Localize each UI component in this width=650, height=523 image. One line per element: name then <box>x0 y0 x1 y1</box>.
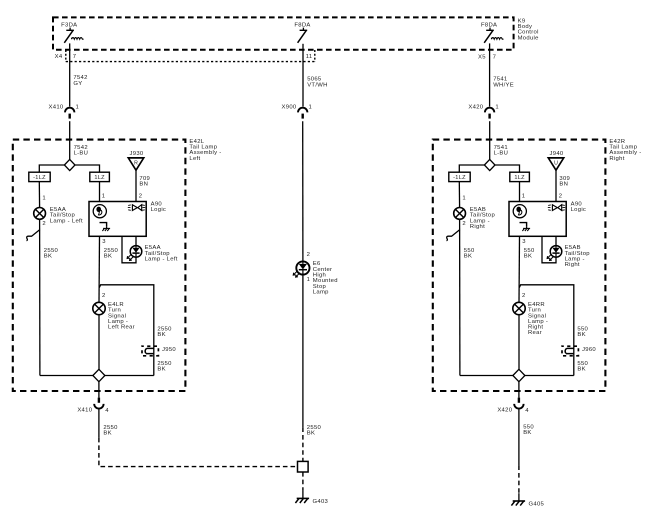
connector X420 pin 1 <box>468 104 499 118</box>
pin 2 lamp (L) <box>42 221 46 227</box>
wire LED loop upper (R) <box>555 236 557 245</box>
wire branch left (R) <box>459 165 484 172</box>
svg-text:BK: BK <box>577 366 585 372</box>
wire triangle to A90 (L) <box>135 170 137 201</box>
wire label 2550 BK below X410 <box>103 425 118 437</box>
svg-text:BK: BK <box>307 430 315 436</box>
svg-text:X900: X900 <box>282 104 297 110</box>
svg-text:1LZ: 1LZ <box>94 175 105 181</box>
svg-text:BK: BK <box>577 332 585 338</box>
wire turn lamp down (R) <box>518 315 520 376</box>
label E42R assembly <box>609 139 641 162</box>
svg-text:VT/WH: VT/WH <box>307 82 327 88</box>
bulb E4RR turn signal lamp (R) <box>513 302 525 314</box>
wire turn lamp down (L) <box>98 315 100 376</box>
label E5AA (L) <box>50 207 83 224</box>
pin 2 A90 (R) <box>559 194 563 200</box>
label K9 Body Control Module <box>518 18 540 41</box>
svg-text:Left Rear: Left Rear <box>108 325 135 331</box>
wire 1LZ to A90 (R) <box>519 182 521 202</box>
junction diamond bottom (R) <box>513 369 525 381</box>
assembly box E42R Tail Lamp Assembly <box>433 140 606 391</box>
svg-text:Module: Module <box>518 35 540 41</box>
bulb E5AB tail/stop lamp (R) <box>454 208 466 220</box>
wire 1LZ to A90 (L) <box>99 182 101 202</box>
LED indicator glyphs inside A90 (R) <box>548 205 565 211</box>
wire bottom junction (R) <box>460 375 574 377</box>
module A90 Logic box (R) <box>509 202 566 237</box>
svg-text:3: 3 <box>522 239 526 245</box>
svg-text:J930: J930 <box>130 151 144 157</box>
label E42L assembly <box>189 139 221 162</box>
wire dashed to G403 <box>302 472 304 491</box>
svg-text:1LZ: 1LZ <box>514 175 525 181</box>
wire F8DA right to X420 <box>489 43 491 106</box>
svg-text:1: 1 <box>522 194 526 200</box>
svg-text:7: 7 <box>73 54 77 60</box>
LED E5AB tail/stop (R) <box>547 246 562 261</box>
wire exit (L) <box>98 382 100 398</box>
label E6 <box>313 261 338 295</box>
svg-text:X420: X420 <box>497 408 512 414</box>
wire to lamp (R) <box>458 182 460 208</box>
svg-text:F8DA: F8DA <box>481 23 497 29</box>
bulb E4LR turn signal lamp (L) <box>93 302 105 314</box>
wire label 550 BK pin3 (R) <box>524 248 535 260</box>
assembly box E42L Tail Lamp Assembly <box>13 140 186 391</box>
connector X410 pin 1 <box>49 104 80 118</box>
wire label 5065 VT/WH <box>307 77 327 89</box>
svg-text:BK: BK <box>157 332 165 338</box>
svg-text:1: 1 <box>495 105 499 111</box>
driver output F8DA center <box>294 23 310 43</box>
label A90 Logic (R) <box>571 201 587 213</box>
svg-text:11: 11 <box>306 54 313 60</box>
svg-text:BK: BK <box>157 366 165 372</box>
svg-text:1: 1 <box>102 194 106 200</box>
wire bottom junction (L) <box>40 375 154 377</box>
svg-text:BK: BK <box>104 254 112 260</box>
svg-text:2: 2 <box>559 194 563 200</box>
wire branch right (R) <box>495 165 520 172</box>
svg-text:X5: X5 <box>478 55 486 61</box>
svg-text:1: 1 <box>307 277 311 283</box>
pin 3 A90 (L) <box>102 239 106 245</box>
svg-text:Left: Left <box>189 156 200 162</box>
svg-text:X420: X420 <box>468 104 483 110</box>
wire pin3 down (L) <box>98 236 101 302</box>
pin 2 E6 <box>307 252 311 258</box>
svg-text:Lamp - Left: Lamp - Left <box>50 218 83 224</box>
internal ground trace (R) <box>520 223 527 227</box>
wire label 7542 L-BU <box>74 145 89 157</box>
LED indicator glyphs inside A90 (L) <box>128 205 145 211</box>
wire E6 down solid <box>302 275 304 428</box>
splice J940 triangle (R) <box>548 151 564 170</box>
pin 7 X5 <box>493 55 497 61</box>
svg-text:Logic: Logic <box>151 207 167 213</box>
wire pin3 down (R) <box>518 236 521 302</box>
svg-text:G403: G403 <box>313 499 329 505</box>
svg-text:Right: Right <box>470 224 485 230</box>
svg-text:2: 2 <box>522 293 526 299</box>
svg-text:BK: BK <box>523 430 531 436</box>
bulb icon inside A90 (R) <box>513 205 526 218</box>
LED E6 center high mounted stop lamp <box>293 261 309 277</box>
wire lamp to junction (R) <box>459 219 461 375</box>
svg-text:X4: X4 <box>55 54 63 60</box>
internal ground trace (L) <box>100 223 107 227</box>
wire label 550 BK below X420 <box>523 424 534 436</box>
pin 3 A90 (R) <box>522 239 526 245</box>
svg-text:1: 1 <box>309 105 313 111</box>
svg-text:3: 3 <box>102 239 106 245</box>
label E5AB LED right <box>565 245 591 268</box>
svg-text:GY: GY <box>73 81 82 87</box>
wire X420 down solid <box>518 408 520 465</box>
label E5AB (R) <box>470 207 496 230</box>
module A90 Logic box (L) <box>89 202 146 237</box>
svg-text:Right: Right <box>609 156 624 162</box>
wire label below splice (R) <box>577 361 588 373</box>
splice J950 (L) <box>142 346 176 356</box>
wire lamp to junction (L) <box>39 219 41 375</box>
wire branch to splice (L) <box>99 285 154 376</box>
wire exit (R) <box>518 382 520 398</box>
wire label 2550 BK lamp branch (L) <box>44 248 59 260</box>
svg-text:U: U <box>554 161 558 167</box>
wire F3DA to X410 <box>69 43 71 106</box>
wire label 2550 BK pin3 (L) <box>104 248 119 260</box>
svg-text:BK: BK <box>103 430 111 436</box>
driver output F3DA <box>61 23 83 43</box>
junction diamond top (L) <box>64 159 75 170</box>
wire triangle to A90 (R) <box>555 170 557 201</box>
label A90 Logic (L) <box>151 201 167 213</box>
bulb E5AA tail/stop lamp (L) <box>34 208 46 220</box>
wire label 2550 BK center <box>307 425 322 437</box>
pin 2 turn lamp (L) <box>102 293 106 299</box>
splice J960 (R) <box>562 346 596 356</box>
wire LED loop upper (L) <box>135 236 137 245</box>
svg-text:BK: BK <box>44 254 52 260</box>
connector X420 pin 4 <box>497 398 529 414</box>
svg-text:BK: BK <box>464 254 472 260</box>
pin 2 A90 (L) <box>139 194 143 200</box>
svg-text:1: 1 <box>462 195 466 201</box>
svg-text:2: 2 <box>139 194 143 200</box>
bulb icon inside A90 (L) <box>93 205 106 218</box>
svg-text:L-BU: L-BU <box>494 151 509 157</box>
K9 Body Control Module box <box>53 17 514 49</box>
wire branch left (L) <box>39 165 64 172</box>
wire feed (R) <box>489 121 491 159</box>
LED E5AA tail/stop (L) <box>127 246 142 261</box>
wire label 7541 WH/YE <box>493 77 514 89</box>
svg-text:X410: X410 <box>77 408 92 414</box>
wire F8DA center to X900 <box>302 44 304 107</box>
wire label 7541 L-BU <box>494 145 509 157</box>
label X4 <box>55 54 63 60</box>
ground G403 <box>295 491 328 505</box>
label E4RR (R) <box>528 302 548 336</box>
wire label above splice (L) <box>157 327 172 339</box>
svg-text:4: 4 <box>105 408 109 414</box>
pigtail hook (R) <box>446 230 459 241</box>
pin 1 lamp (R) <box>462 195 466 201</box>
pin 1 E6 <box>307 277 311 283</box>
wire E6 dashed to junction block <box>302 427 304 461</box>
svg-text:R: R <box>134 161 138 167</box>
wire label below splice (L) <box>157 361 172 373</box>
label X5 <box>478 55 486 61</box>
internal chassis ground (R) <box>522 226 530 231</box>
pigtail hook (L) <box>26 230 39 241</box>
svg-text:BK: BK <box>524 254 532 260</box>
terminal box 1LZ (R) <box>510 172 530 181</box>
wire label 709 BN (L) <box>139 176 150 188</box>
wire label 309 BN (R) <box>559 176 570 188</box>
connector X900 pin 1 <box>282 104 313 118</box>
wire branch to splice (R) <box>519 285 574 376</box>
svg-text:7: 7 <box>493 55 497 61</box>
svg-text:-1LZ: -1LZ <box>453 175 466 181</box>
svg-text:BN: BN <box>139 182 148 188</box>
wire dashed ground run left <box>99 438 298 467</box>
svg-text:Lamp - Left: Lamp - Left <box>145 257 178 263</box>
svg-text:4: 4 <box>525 408 529 414</box>
svg-text:2: 2 <box>307 252 311 258</box>
pin 1 A90 (L) <box>102 194 106 200</box>
svg-text:2: 2 <box>42 221 46 227</box>
junction block S-point <box>298 461 309 472</box>
wire X900 to E6 <box>302 121 304 261</box>
svg-text:WH/YE: WH/YE <box>493 82 514 88</box>
svg-text:2: 2 <box>462 221 466 227</box>
junction diamond bottom (L) <box>93 369 105 381</box>
svg-text:BN: BN <box>559 182 568 188</box>
splice J930 triangle (L) <box>128 151 144 170</box>
svg-text:F8DA: F8DA <box>294 23 310 29</box>
svg-text:J960: J960 <box>582 347 596 353</box>
terminal box 1LZ (L) <box>90 172 110 181</box>
label E5AA LED left <box>145 245 178 262</box>
label E4LR (L) <box>108 302 135 331</box>
svg-text:1: 1 <box>42 195 46 201</box>
wire branch right (L) <box>75 165 100 172</box>
svg-text:1: 1 <box>76 105 80 111</box>
junction diamond top (R) <box>484 159 495 170</box>
terminal box -1LZ (R) <box>449 172 470 181</box>
svg-text:Logic: Logic <box>571 207 587 213</box>
svg-text:L-BU: L-BU <box>74 151 89 157</box>
wire label 550 BK lamp branch (R) <box>464 248 475 260</box>
wire LED loop (L) <box>122 236 136 262</box>
wire label 7542 GY <box>73 75 87 87</box>
wire LED loop (R) <box>542 236 556 262</box>
internal chassis ground (L) <box>102 226 110 231</box>
wire to lamp (L) <box>38 182 40 208</box>
wire X410 down solid <box>98 408 100 437</box>
svg-text:Right: Right <box>565 262 580 268</box>
wire label above splice (R) <box>577 327 588 339</box>
svg-text:Rear: Rear <box>528 330 542 336</box>
pin 2 turn lamp (R) <box>522 293 526 299</box>
pin 11 X4 <box>306 54 313 60</box>
connector X4 dotted boundary <box>66 50 315 62</box>
svg-text:J950: J950 <box>162 347 176 353</box>
pin 1 A90 (R) <box>522 194 526 200</box>
svg-text:-1LZ: -1LZ <box>33 175 46 181</box>
svg-text:2: 2 <box>102 293 106 299</box>
ground G405 <box>511 493 544 507</box>
svg-text:J940: J940 <box>550 151 564 157</box>
connector X410 pin 4 <box>77 398 109 414</box>
svg-text:F3DA: F3DA <box>61 23 77 29</box>
terminal box -1LZ (L) <box>29 172 50 181</box>
wire feed (L) <box>69 121 71 159</box>
svg-text:Lamp: Lamp <box>313 289 329 295</box>
driver output F8DA right <box>481 23 504 43</box>
pin 1 lamp (L) <box>42 195 46 201</box>
wire dashed to G405 <box>518 465 520 493</box>
svg-text:G405: G405 <box>529 502 545 508</box>
svg-text:X410: X410 <box>49 104 64 110</box>
pin 2 lamp (R) <box>462 221 466 227</box>
pin 7 X4 <box>73 54 77 60</box>
